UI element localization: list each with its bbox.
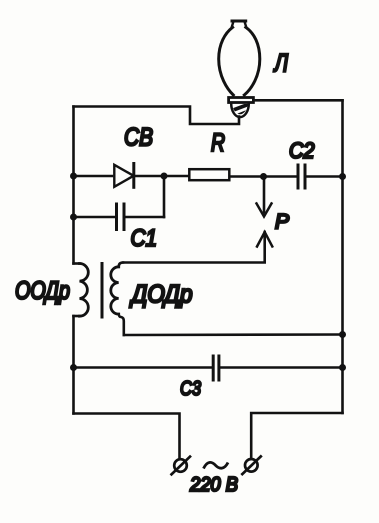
svg-text:R: R [211,129,225,157]
transformer core [101,264,104,318]
wire left rail lower [72,316,75,414]
wire left rail upper [72,107,75,264]
igniter gap P: lower (up) arrow [123,232,272,263]
node: left rail / diode row [70,173,77,180]
svg-text:ООДр: ООДр [15,277,70,305]
svg-text:Л: Л [273,50,289,78]
wire bottom-left rail to terminal [74,414,180,459]
svg-text:Р: Р [275,209,290,233]
lamp Л envelope [219,21,260,95]
wire lamp shell to right rail [254,99,343,102]
node: C2 / right rail [339,173,346,180]
wire resistor to node [231,175,297,178]
svg-text:СВ: СВ [124,124,153,152]
node: left rail / C3 row [70,364,77,371]
label ~ (AC) [204,462,229,468]
wire bottom-right rail to terminal [251,413,342,458]
inductor ДОДр (secondary winding) [111,263,124,336]
terminal X2 [242,456,260,474]
wire diode to junction node [134,175,188,178]
capacitor C2 [298,165,343,188]
node: ДОДр wire / right rail [339,331,346,338]
capacitor C1 [74,204,165,230]
igniter gap P: upper (down) arrow [257,177,272,217]
capacitor C3 [74,356,343,380]
svg-text:220 В: 220 В [189,473,238,496]
wire C1 branch up to junction [163,176,166,217]
inductor ООДр (primary winding on left rail) [74,264,89,317]
resistor R [189,169,229,180]
svg-text:С3: С3 [180,377,201,400]
wire diode row from left rail [74,175,113,178]
svg-text:ДОДр: ДОДр [129,281,193,309]
lamp Л base (collar + screw with hatching) [229,98,254,126]
svg-text:С2: С2 [289,138,315,163]
wire ДОДр bottom to right rail [124,333,343,336]
terminal X1 [172,457,191,475]
diode VD [114,164,134,188]
node: C3 / right rail [339,364,346,371]
wire lamp tip to top-left rail (step) [74,107,240,125]
wire right rail [341,100,344,413]
node: resistor-C2-P junction [260,173,267,180]
node: diode-C1-resistor junction [161,173,168,180]
node: left rail / C1 row [70,214,77,221]
svg-text:С1: С1 [131,225,158,252]
